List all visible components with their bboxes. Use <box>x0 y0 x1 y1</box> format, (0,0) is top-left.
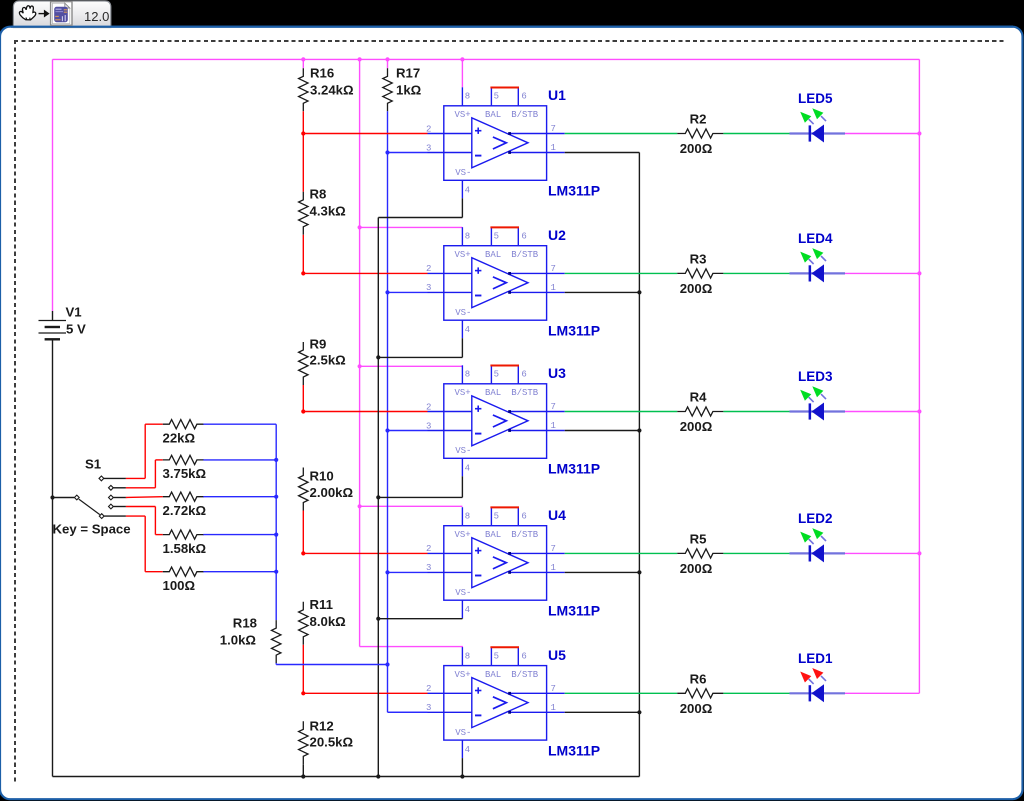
wire contact2 up <box>154 460 156 488</box>
S1 contact 1 <box>99 476 104 481</box>
node +5V rail junction <box>385 57 389 61</box>
wire +5V to U2 pin8 <box>360 226 463 228</box>
svg-text:R17: R17 <box>396 66 420 81</box>
resistor 2.72k <box>163 492 204 501</box>
wire U1 pin4 down <box>461 198 463 217</box>
wire U4 pin4 to pin4 bus <box>378 618 462 620</box>
node signal bus junction U4 <box>385 570 389 574</box>
wire LED1 anode to +5V <box>845 692 919 694</box>
wire R6 to LED1 <box>723 692 789 694</box>
svg-text:R4: R4 <box>690 390 708 405</box>
resistor R12 <box>299 721 308 764</box>
wire R16 to node A <box>302 111 304 192</box>
op-amp U5 (LM311P comparator) <box>426 647 565 758</box>
battery V1 <box>39 311 67 347</box>
wire U2 pin4 to pin4 bus <box>378 356 462 358</box>
svg-text:LED3: LED3 <box>798 369 833 384</box>
svg-text:200Ω: 200Ω <box>680 281 713 296</box>
LED5 <box>790 108 846 142</box>
wire signal to U3 pin3 <box>388 430 428 432</box>
resistor R3 <box>677 269 723 278</box>
resistor R9 <box>299 342 308 385</box>
LED2 <box>790 528 846 562</box>
wire R10 to divider node <box>302 511 304 554</box>
svg-text:LED1: LED1 <box>798 651 833 666</box>
svg-text:200Ω: 200Ω <box>680 419 713 434</box>
svg-text:3.24kΩ: 3.24kΩ <box>310 83 354 98</box>
LED1 <box>790 668 846 702</box>
hand knuckles <box>26 18 30 20</box>
wire R5 to LED2 <box>723 552 789 554</box>
svg-text:100Ω: 100Ω <box>163 578 196 593</box>
wire R3 to LED4 <box>723 272 789 274</box>
svg-text:12.0: 12.0 <box>84 9 109 24</box>
svg-text:R12: R12 <box>310 719 334 734</box>
node +5V rail junction <box>301 57 305 61</box>
node switch pole tap <box>50 495 54 499</box>
wire LED3 anode to +5V <box>845 411 919 413</box>
wire contact2 red <box>126 487 155 489</box>
node ground bus junction U4 <box>637 570 641 574</box>
wire bottom ground rail <box>53 776 640 778</box>
wire R8 to divider node <box>302 235 304 274</box>
wire contact4 red <box>126 506 155 508</box>
wire 100 to common <box>203 571 276 573</box>
node switch common junction <box>274 570 278 574</box>
svg-text:LED5: LED5 <box>798 91 833 106</box>
wire R9 to divider node <box>302 385 304 412</box>
resistor R2 <box>677 129 723 138</box>
node +5V bus junction U3 <box>358 364 362 368</box>
op-amp U2 (LM311P comparator) <box>426 227 565 338</box>
svg-text:2.00kΩ: 2.00kΩ <box>310 485 354 500</box>
resistor R8 <box>299 192 308 235</box>
wire U3 pin1 to ground bus <box>565 430 640 432</box>
wire U4 pin4 down <box>461 617 463 620</box>
S1 contact 3 <box>109 495 114 500</box>
wire U2 pin4 down <box>461 338 463 357</box>
wire contact5 down <box>144 516 146 572</box>
S1 contact 5 <box>99 514 104 519</box>
wire S1 contact 1 stub <box>104 477 126 479</box>
resistor R16 <box>299 68 308 111</box>
svg-text:3.75kΩ: 3.75kΩ <box>163 466 207 481</box>
wire +5V to U3 pin8 <box>360 365 463 367</box>
node ground bus junction U3 <box>637 428 641 432</box>
svg-text:LED2: LED2 <box>798 511 833 526</box>
svg-text:8.0kΩ: 8.0kΩ <box>310 614 347 629</box>
wire divider to U1 pin2 <box>303 133 427 135</box>
node +5V bus junction U4 <box>358 504 362 508</box>
wire U4 pin7 output <box>565 552 678 554</box>
wire divider to U5 pin2 <box>303 692 427 694</box>
node divider tap 1 <box>301 131 305 135</box>
wire S1 contact 5 stub <box>104 515 126 517</box>
svg-text:200Ω: 200Ω <box>680 561 713 576</box>
wire V1 minus down <box>52 347 54 777</box>
node pin4 bus ground junction <box>376 774 380 778</box>
svg-text:R3: R3 <box>690 251 707 266</box>
node switch common junction <box>274 533 278 537</box>
wire contact5 red <box>126 515 145 517</box>
svg-text:22kΩ: 22kΩ <box>163 431 196 446</box>
wire S1 contact 3 stub <box>113 497 126 499</box>
svg-text:R6: R6 <box>690 671 707 686</box>
svg-text:U1: U1 <box>548 87 566 103</box>
wire right ground bus <box>638 153 640 777</box>
wire to 1.58k <box>155 534 162 536</box>
wire to 22k <box>145 423 163 425</box>
node divider tap 2 <box>301 271 305 275</box>
wire +5V to U5 pin8 <box>360 646 463 648</box>
sheet dashed border top <box>14 40 1006 42</box>
op-amp U1 (LM311P comparator) <box>426 87 565 198</box>
resistor 1.58k <box>163 530 204 539</box>
node LED4 anode junction <box>917 271 921 275</box>
wire pole to S1 <box>53 497 75 499</box>
node LED3 anode junction <box>917 409 921 413</box>
node signal bus junction U3 <box>385 428 389 432</box>
node signal bus junction U1 <box>385 150 389 154</box>
svg-text:5 V: 5 V <box>66 322 86 337</box>
node ground bus junction U2 <box>637 290 641 294</box>
resistor R6 <box>677 689 723 698</box>
resistor R10 <box>299 468 308 511</box>
svg-text:R18: R18 <box>233 616 257 631</box>
node pin4 bus junction <box>376 355 380 359</box>
wire U2 pin1 to ground bus <box>565 291 640 293</box>
wire U3 pin7 output <box>565 411 678 413</box>
wire +5V to R16 <box>302 59 304 68</box>
svg-text:R9: R9 <box>310 337 327 352</box>
wire switch common bus <box>275 424 277 620</box>
resistor R4 <box>677 407 723 416</box>
svg-text:R8: R8 <box>310 187 327 202</box>
svg-text:LM311P: LM311P <box>548 461 600 477</box>
wire divider to U3 pin2 <box>303 411 427 413</box>
wire +5V mid bus <box>359 59 361 646</box>
wire +5V to U1 pin8 <box>461 59 463 87</box>
wire contact4 down <box>154 507 156 535</box>
svg-text:U5: U5 <box>548 647 566 663</box>
wire 1.58k to common <box>203 534 276 536</box>
node +5V bus junction U2 <box>358 225 362 229</box>
svg-text:LED4: LED4 <box>798 231 833 246</box>
wire contact3 to 2.72k <box>126 496 163 499</box>
document tab <box>13 1 110 28</box>
wire R17 blue bus <box>387 111 389 712</box>
svg-text:20.5kΩ: 20.5kΩ <box>310 735 354 750</box>
wire +5V right bus <box>918 59 920 693</box>
node divider tap 4 <box>301 551 305 555</box>
wire contact1 red <box>126 477 145 479</box>
node signal bus junction U2 <box>385 290 389 294</box>
svg-text:4.3kΩ: 4.3kΩ <box>310 204 347 219</box>
wire S1 contact 4 stub <box>113 506 126 508</box>
resistor R17 <box>383 68 392 111</box>
node divider tap 5 <box>301 691 305 695</box>
arrow icon <box>39 11 49 16</box>
op-amp U3 (LM311P comparator) <box>426 365 565 476</box>
wire LED4 anode to +5V <box>845 272 919 274</box>
S1 pole pivot <box>74 495 79 500</box>
node ground bus junction U5 <box>637 710 641 714</box>
wire U5 pin7 output <box>565 692 678 694</box>
node switch common junction <box>274 458 278 462</box>
svg-text:2.72kΩ: 2.72kΩ <box>163 503 207 518</box>
node LED5 anode junction <box>917 131 921 135</box>
wire signal to U5 pin3 <box>388 711 428 713</box>
wire R2 to LED5 <box>723 133 789 135</box>
node +5V rail junction <box>460 57 464 61</box>
wire LED5 anode to +5V <box>845 133 919 135</box>
node divider tap 3 <box>301 409 305 413</box>
hand (pan) icon <box>19 6 35 20</box>
sheet dashed border left <box>14 40 16 785</box>
LED4 <box>790 248 846 282</box>
svg-text:1kΩ: 1kΩ <box>396 83 422 98</box>
svg-text:U2: U2 <box>548 227 566 243</box>
wire divider to U4 pin2 <box>303 552 427 554</box>
resistor R11 <box>299 602 308 645</box>
wire signal to U4 pin3 <box>388 571 428 573</box>
node pin4 bus junction <box>376 495 380 499</box>
wire R12 to ground rail <box>302 764 304 776</box>
wire divider to U2 pin2 <box>303 272 427 274</box>
resistor 3.75k <box>163 455 204 464</box>
S1 arm <box>79 499 100 514</box>
wire 2.72k to common <box>203 496 276 498</box>
svg-text:LM311P: LM311P <box>548 183 600 199</box>
schematic document icon <box>51 2 72 26</box>
LED3 <box>790 386 846 420</box>
S1 contact 4 <box>109 504 114 509</box>
wire LED2 anode to +5V <box>845 552 919 554</box>
wire U5 pin1 to ground bus <box>565 711 640 713</box>
wire R4 to LED3 <box>723 411 789 413</box>
wire +5V to U4 pin8 <box>360 505 463 507</box>
wire U3 pin4 to pin4 bus <box>378 496 462 498</box>
wire to 100 <box>145 571 163 573</box>
svg-text:R11: R11 <box>310 597 333 612</box>
wire U4 pin1 to ground bus <box>565 571 640 573</box>
svg-text:S1: S1 <box>85 457 101 472</box>
S1 contact 2 <box>109 485 114 490</box>
svg-text:R5: R5 <box>690 531 707 546</box>
wire +5V to V1 <box>52 59 54 311</box>
wire 3.75k to common <box>203 459 276 461</box>
wire U5 pin4 to ground rail <box>461 758 463 776</box>
node +5V rail junction <box>358 57 362 61</box>
wire R11 to divider node <box>302 645 304 694</box>
svg-text:200Ω: 200Ω <box>680 701 713 716</box>
svg-text:1.58kΩ: 1.58kΩ <box>163 541 207 556</box>
wire signal to U2 pin3 <box>388 291 428 293</box>
resistor 22k <box>163 420 204 429</box>
wire signal to U1 pin3 <box>388 152 428 154</box>
svg-text:R16: R16 <box>310 66 334 81</box>
wire +5V top rail <box>53 58 920 60</box>
resistor R18 <box>272 620 281 663</box>
wire U1 pin4 to pin4 bus <box>378 217 462 219</box>
node U5 pin4 ground junction <box>460 774 464 778</box>
resistor R5 <box>677 549 723 558</box>
resistor 100 <box>163 567 204 576</box>
svg-text:LM311P: LM311P <box>548 603 600 619</box>
wire contact1 up <box>144 424 146 478</box>
wire +5V to R17 <box>387 59 389 68</box>
wire 22k to common <box>203 423 276 425</box>
node pin4 bus junction <box>376 617 380 621</box>
svg-text:1.0kΩ: 1.0kΩ <box>220 633 257 648</box>
wire R18 bottom <box>275 663 277 664</box>
svg-text:Key = Space: Key = Space <box>53 522 131 537</box>
node LED2 anode junction <box>917 551 921 555</box>
svg-text:R10: R10 <box>310 469 334 484</box>
wire pin4 ground bus <box>377 218 379 777</box>
wire blue bus to U5 pin3 <box>388 711 428 713</box>
node switch common junction <box>274 495 278 499</box>
svg-text:LM311P: LM311P <box>548 323 600 339</box>
svg-text:U3: U3 <box>548 365 566 381</box>
svg-text:U4: U4 <box>548 507 566 523</box>
svg-text:LM311P: LM311P <box>548 742 600 758</box>
svg-text:200Ω: 200Ω <box>680 141 713 156</box>
svg-text:2.5kΩ: 2.5kΩ <box>310 353 347 368</box>
svg-text:R2: R2 <box>690 112 707 127</box>
wire U2 pin7 output <box>565 272 678 274</box>
wire U1 pin1 to ground bus <box>565 152 640 154</box>
wire S1 contact 2 stub <box>113 487 126 489</box>
node signal bus R18 junction <box>385 662 389 666</box>
wire to 3.75k <box>155 459 162 461</box>
workspace top border over tab <box>11 26 1013 28</box>
wire R18 to signal bus <box>276 664 387 666</box>
svg-text:V1: V1 <box>66 305 82 320</box>
node R12 ground junction <box>301 774 305 778</box>
wire U1 pin7 output <box>565 133 678 135</box>
wire U3 pin4 down <box>461 476 463 497</box>
op-amp U4 (LM311P comparator) <box>426 507 565 618</box>
